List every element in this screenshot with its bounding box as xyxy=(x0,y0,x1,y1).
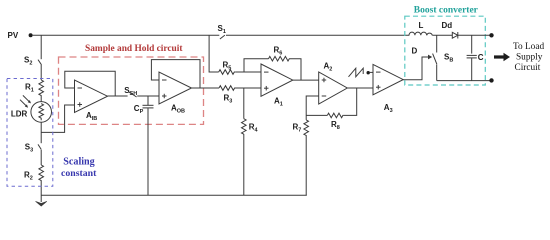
wire A3 output gate drive xyxy=(403,57,428,80)
resistor R5 xyxy=(219,61,236,75)
switch SSH xyxy=(124,86,137,97)
svg-text:D: D xyxy=(412,47,418,56)
inductor L xyxy=(409,21,432,35)
svg-text:C: C xyxy=(478,53,484,62)
op-amp A1 xyxy=(261,64,293,108)
resistor R2 xyxy=(24,165,44,182)
LDR light arrow 1 xyxy=(23,95,31,103)
op-amp A2 xyxy=(319,62,348,105)
LDR photoresistor xyxy=(11,102,52,123)
wire ground rail xyxy=(41,194,307,196)
ground symbol xyxy=(36,201,47,206)
diode Dd xyxy=(442,21,458,39)
svg-text:Supply: Supply xyxy=(516,52,543,62)
wire LDR to junction and S3 xyxy=(40,122,42,143)
op-amp AOB output buffer xyxy=(159,72,192,115)
arrow gate drive head xyxy=(428,55,432,60)
box boost-converter teal dashed xyxy=(405,16,486,85)
svg-text:PV: PV xyxy=(8,31,19,40)
wire top rail S1 to boost xyxy=(226,34,409,36)
wire R4 branch xyxy=(243,88,245,119)
wire PV branch down to S2 xyxy=(40,35,42,59)
wire R4 to ground rail xyxy=(243,134,245,195)
capacitor CP xyxy=(134,96,154,195)
resistor R8 xyxy=(327,113,343,131)
wire R7 R8 junction xyxy=(306,114,327,116)
resistor R4 xyxy=(242,119,259,135)
op-amp A3 xyxy=(373,64,403,114)
switch S3 xyxy=(25,143,41,154)
wire R6 to A1 output xyxy=(290,59,301,80)
wire S3 to R2 xyxy=(40,150,42,165)
op-amp AIB input buffer xyxy=(75,80,108,122)
wire A1 output to A2 xyxy=(293,79,319,81)
wire R7 to ground rail xyxy=(305,135,307,195)
resistor R3 xyxy=(219,86,236,105)
wire boost bottom rail xyxy=(437,80,492,82)
wire branch down to R5 xyxy=(209,35,219,72)
LDR light arrow 2 xyxy=(20,100,28,108)
wire A2 minus branch xyxy=(306,96,319,120)
wire R5 to A1 minus xyxy=(235,71,261,73)
wire R1 to LDR xyxy=(40,96,42,102)
wire AIB feedback loop xyxy=(65,71,115,96)
wire AOB feedback loop xyxy=(151,60,200,88)
wire L to diode xyxy=(432,34,452,36)
svg-text:Circuit: Circuit xyxy=(515,63,541,73)
wire R8 up to A2 output xyxy=(344,88,357,115)
node output terminal bottom dot xyxy=(489,78,493,82)
wire R6 feedback loop xyxy=(244,59,269,72)
node sawtooth connector dot xyxy=(367,71,370,74)
wire sawtooth to A3 minus xyxy=(370,71,373,73)
box scaling-constant blue dashed xyxy=(7,79,53,187)
node output terminal top dot xyxy=(489,33,493,37)
label To Load Supply Circuit xyxy=(513,42,544,73)
switch SB xyxy=(433,35,454,80)
svg-text:Sample and Hold circuit: Sample and Hold circuit xyxy=(85,44,183,54)
sawtooth waveform symbol xyxy=(349,68,364,77)
wire A2 output to A3 xyxy=(347,87,373,89)
wire junction to AIB plus input xyxy=(41,105,74,132)
svg-text:To Load: To Load xyxy=(513,42,544,52)
svg-text:Boost converter: Boost converter xyxy=(414,5,479,15)
wire diode to output node xyxy=(458,34,492,36)
wire SSH to AOB xyxy=(137,95,159,97)
svg-text:LDR: LDR xyxy=(11,110,28,119)
box sample-and-hold red dashed xyxy=(59,57,204,124)
wire S2 to R1 xyxy=(40,65,42,80)
wire AIB output xyxy=(108,95,128,97)
resistor R6 xyxy=(269,46,291,62)
node PV junction dot xyxy=(29,33,33,37)
wire R2 to ground xyxy=(40,181,42,202)
label Scaling constant xyxy=(61,157,97,179)
svg-text:L: L xyxy=(419,21,424,30)
svg-text:constant: constant xyxy=(61,168,97,179)
svg-text:Dd: Dd xyxy=(442,21,453,30)
capacitor C xyxy=(467,35,484,80)
wire top rail from PV to S1 xyxy=(33,34,220,36)
svg-text:Scaling: Scaling xyxy=(63,157,94,168)
resistor R1 xyxy=(25,80,44,96)
switch S2 xyxy=(24,56,42,67)
wire R3 to A1 plus xyxy=(236,87,262,89)
wire AOB output to R3 xyxy=(192,87,220,89)
switch S1 xyxy=(218,24,226,39)
resistor R7 xyxy=(293,120,309,136)
arrow to load xyxy=(494,53,510,61)
